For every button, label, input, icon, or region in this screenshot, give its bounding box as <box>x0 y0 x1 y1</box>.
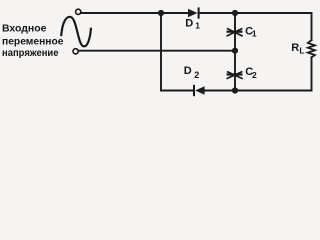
svg-text:переменное: переменное <box>2 36 64 47</box>
wire: bottom rail node D to right corner <box>235 90 312 92</box>
label D1 <box>185 17 200 30</box>
svg-text:D: D <box>184 65 192 77</box>
label C2 <box>245 66 257 80</box>
svg-text:Входное: Входное <box>2 23 47 34</box>
diode D1 (points right) <box>188 8 199 17</box>
wire: resistor to bottom right corner <box>311 57 313 90</box>
capacitor C2 <box>227 72 242 79</box>
junction node B dot <box>232 10 238 16</box>
svg-text:2: 2 <box>194 70 199 80</box>
wire: D2 anode to node D bottom <box>205 90 235 92</box>
terminal circle: source top <box>76 9 81 14</box>
junction node A dot <box>158 10 164 16</box>
junction node D dot <box>232 87 238 93</box>
label RL <box>291 42 304 55</box>
svg-text:D: D <box>185 17 193 29</box>
svg-text:1: 1 <box>195 21 200 31</box>
wire: bottom rail from corner to D2 cathode <box>161 90 194 92</box>
wire: C2 bottom plate to node D <box>234 77 236 91</box>
wire: top rail node B to right corner <box>235 12 312 14</box>
wire: C1 bottom plate to node C <box>234 34 236 51</box>
resistor RL zigzag <box>308 40 315 57</box>
svg-text:напряжение: напряжение <box>2 48 59 59</box>
svg-text:2: 2 <box>252 70 257 80</box>
diode D2 (points left) <box>194 86 205 95</box>
wire: top rail from source to node A <box>81 12 161 14</box>
junction node C dot <box>232 48 238 54</box>
AC source sine-wave symbol <box>61 17 91 47</box>
label C1 <box>245 25 257 38</box>
wire: node C down to C2 top plate <box>234 51 236 73</box>
wire: top rail node A to D1 anode <box>161 12 188 14</box>
wire: node B down to C1 top plate <box>234 13 236 30</box>
svg-text:R: R <box>291 42 299 54</box>
label D2 <box>184 65 200 80</box>
svg-text:1: 1 <box>252 28 257 38</box>
svg-text:L: L <box>299 46 304 56</box>
wire: vertical from node A down to bottom rail <box>160 13 162 91</box>
capacitor C1 <box>227 29 242 36</box>
wire: right edge top corner down to resistor <box>311 13 313 40</box>
terminal circle: source bottom <box>73 49 78 54</box>
wire: middle rail from source bottom terminal to node C <box>79 50 235 52</box>
wire: D1 cathode to node B top <box>199 12 235 14</box>
